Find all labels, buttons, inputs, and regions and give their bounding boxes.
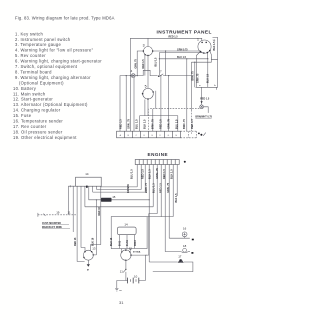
svg-text:BLK 1.5: BLK 1.5 xyxy=(148,169,152,179)
svg-text:BLU 1.5: BLU 1.5 xyxy=(177,56,187,59)
svg-text:1.5: 1.5 xyxy=(213,40,216,42)
dashed wire to other equipment 19 xyxy=(38,210,76,216)
svg-text:10. Battery: 10. Battery xyxy=(13,86,37,91)
wire: key left down xyxy=(196,52,199,87)
svg-text:BRN .75: BRN .75 xyxy=(192,71,195,81)
wire: key branch to lamp row xyxy=(159,53,203,76)
ground battery xyxy=(115,288,121,292)
svg-text:4. Warning light for "low oil: 4. Warning light for "low oil pressure" xyxy=(15,48,94,53)
svg-text:BLU 1.5: BLU 1.5 xyxy=(175,119,179,129)
svg-text:11: 11 xyxy=(120,269,123,273)
svg-text:H: H xyxy=(176,135,178,137)
svg-text:D+61: D+61 xyxy=(126,240,129,246)
legend xyxy=(13,31,102,140)
terminal board 8 (engine) xyxy=(135,160,186,165)
svg-text:17. Rev counter: 17. Rev counter xyxy=(13,124,47,129)
svg-text:3. Temperature gauge: 3. Temperature gauge xyxy=(15,42,61,47)
svg-text:17: 17 xyxy=(178,255,182,259)
temperature gauge 3 xyxy=(143,43,154,56)
svg-text:13. Alternator (Optional Equip: 13. Alternator (Optional Equipment) xyxy=(13,102,88,107)
svg-text:G: G xyxy=(168,135,170,137)
wire: gauge3 left drop xyxy=(137,51,143,76)
dynastart enclosure xyxy=(111,217,147,249)
svg-text:BRN/WHT 0.75: BRN/WHT 0.75 xyxy=(195,116,212,119)
alternator ground xyxy=(87,260,89,264)
svg-text:a: a xyxy=(199,85,201,87)
wire: branch to dashed cells xyxy=(191,57,211,62)
loop wire xyxy=(153,262,193,272)
svg-text:4: 4 xyxy=(131,69,133,73)
svg-text:M: M xyxy=(87,269,89,271)
regulator on generator (small box) xyxy=(117,223,136,235)
svg-text:m: m xyxy=(120,290,122,292)
alternator right wire xyxy=(93,200,96,255)
rev counter case edge xyxy=(155,91,157,109)
wire: box left to 19 drop xyxy=(69,186,76,215)
alternator 13 xyxy=(83,247,96,261)
wire: battery to ground xyxy=(117,281,128,289)
svg-text:b: b xyxy=(214,85,216,87)
wire labels below engine board row2 xyxy=(126,182,170,193)
wire: key right down xyxy=(210,51,218,87)
wire: gauge3 bottom drop to rev counter xyxy=(147,56,149,89)
bus wire c6 to start-generator right xyxy=(131,214,157,256)
wire: key top right vertical xyxy=(213,37,218,59)
oil pressure sender 18 xyxy=(165,244,193,254)
svg-text:15: 15 xyxy=(112,195,116,199)
svg-text:BRN .75: BRN .75 xyxy=(144,182,148,193)
svg-text:18. Oil pressure sender: 18. Oil pressure sender xyxy=(13,129,63,134)
svg-text:BRN .75: BRN .75 xyxy=(151,119,155,129)
svg-text:DF16: DF16 xyxy=(134,239,137,246)
svg-text:GRN 0.75: GRN 0.75 xyxy=(177,49,188,52)
svg-text:C: C xyxy=(136,135,138,137)
svg-text:GRN .75: GRN .75 xyxy=(135,59,138,69)
svg-text:RED 1.5: RED 1.5 xyxy=(169,36,179,39)
svg-text:19. Other electrical equipment: 19. Other electrical equipment xyxy=(13,135,77,140)
svg-text:10: 10 xyxy=(134,275,138,279)
wire: rev counter bottom xyxy=(147,99,149,116)
verticals to alternator xyxy=(77,188,85,262)
svg-text:E: E xyxy=(152,135,154,137)
svg-text:RED 1.5: RED 1.5 xyxy=(159,119,163,129)
svg-text:GRN .75: GRN .75 xyxy=(197,73,200,83)
svg-text:RED 1.5: RED 1.5 xyxy=(159,183,163,193)
svg-text:GRN+.75: GRN+.75 xyxy=(155,168,159,179)
svg-text:ENGINE: ENGINE xyxy=(148,152,169,157)
svg-text:13: 13 xyxy=(92,247,96,251)
svg-text:(Optional Equipment): (Optional Equipment) xyxy=(19,80,64,85)
small box bottom wires xyxy=(120,235,135,249)
wire: battery right up xyxy=(139,255,147,280)
svg-text:GRN .75: GRN .75 xyxy=(167,119,171,129)
wire: lamp9 right xyxy=(204,107,209,113)
dashed optional drop to board xyxy=(147,109,149,132)
svg-text:RED 16: RED 16 xyxy=(74,237,77,246)
svg-text:12: 12 xyxy=(129,246,133,250)
node dot right of board xyxy=(198,133,200,135)
svg-text:GRN .75: GRN .75 xyxy=(127,119,131,129)
svg-text:5. Rev counter: 5. Rev counter xyxy=(15,53,46,58)
switch 7 xyxy=(158,69,191,77)
svg-text:1. Key switch: 1. Key switch xyxy=(15,31,43,36)
svg-text:14: 14 xyxy=(85,172,89,176)
svg-text:8. Terminal board: 8. Terminal board xyxy=(15,70,52,75)
bus wires box to board xyxy=(101,187,137,188)
svg-text:6V 85A: 6V 85A xyxy=(133,250,141,253)
main switch 11 xyxy=(120,269,127,274)
svg-text:RED 1.5: RED 1.5 xyxy=(140,169,144,179)
svg-text:INSTRUMENT PANEL: INSTRUMENT PANEL xyxy=(157,30,212,36)
svg-text:BLU 1.5: BLU 1.5 xyxy=(134,119,138,129)
rev counter 5 xyxy=(142,85,154,100)
svg-text:BLU 16: BLU 16 xyxy=(110,237,113,246)
wire: key to mid (blue) xyxy=(159,53,207,59)
connector row xyxy=(196,86,218,88)
svg-text:7: 7 xyxy=(160,69,162,73)
warning light 4 xyxy=(120,69,158,77)
svg-text:5: 5 xyxy=(145,85,147,89)
svg-text:3: 3 xyxy=(143,43,145,47)
svg-text:RED 16: RED 16 xyxy=(98,206,101,215)
svg-text:BLK 1.5: BLK 1.5 xyxy=(142,119,146,129)
svg-text:14. Charging regulator: 14. Charging regulator xyxy=(13,108,61,113)
svg-text:B 61: B 61 xyxy=(118,240,121,246)
dashed vertical xyxy=(191,110,193,134)
rev counter sender 17 xyxy=(149,255,193,272)
key switch 1 xyxy=(197,37,216,53)
svg-text:BLU 1.5: BLU 1.5 xyxy=(129,169,133,179)
svg-text:7. Switch, optional equipment: 7. Switch, optional equipment xyxy=(15,64,78,69)
warning light 9 xyxy=(200,105,204,109)
svg-text:RED 1.5: RED 1.5 xyxy=(200,97,210,100)
wire: start-generator to main switch xyxy=(125,260,127,280)
svg-text:A: A xyxy=(120,134,122,137)
wire stubs from engine board xyxy=(137,165,177,263)
svg-text:11: 11 xyxy=(68,210,71,214)
charging regulator 14 (large box) xyxy=(73,172,101,232)
svg-text:14: 14 xyxy=(124,223,128,227)
svg-text:1: 1 xyxy=(197,37,199,41)
svg-text:12. Start-generator: 12. Start-generator xyxy=(13,97,53,102)
svg-text:RED 1.5: RED 1.5 xyxy=(142,59,145,69)
terminal board 8 (panel) xyxy=(117,131,206,138)
svg-text:BLK 1.5: BLK 1.5 xyxy=(175,193,178,203)
svg-text:RED 1.5: RED 1.5 xyxy=(162,169,166,179)
dashed optional wire to lamp 9 xyxy=(150,108,200,110)
svg-text:31: 31 xyxy=(119,300,124,305)
bus wire c5 xyxy=(85,188,153,207)
wire: gauge3 to key (green) xyxy=(153,50,201,52)
fuse 15 wire xyxy=(89,188,149,200)
svg-text:18: 18 xyxy=(183,244,187,248)
wires into start-generator top xyxy=(122,249,131,251)
wire: small drop xyxy=(144,55,146,75)
svg-text:B: B xyxy=(128,135,130,137)
temperature sender 16 xyxy=(169,226,194,240)
wire labels below engine board row1 xyxy=(129,168,173,179)
svg-text:RED 1.5: RED 1.5 xyxy=(190,119,194,129)
svg-text:Fig. 83. Wiring diagram for la: Fig. 83. Wiring diagram for late prod. T… xyxy=(15,16,115,21)
svg-text:D: D xyxy=(144,135,146,137)
svg-text:9. Warning light, charging alt: 9. Warning light, charging alternator xyxy=(15,75,91,80)
svg-text:BLK 16: BLK 16 xyxy=(92,237,95,246)
start-generator 12 xyxy=(121,246,141,261)
svg-text:BLK 1.5: BLK 1.5 xyxy=(213,41,216,51)
svg-text:11. Main switch: 11. Main switch xyxy=(13,91,46,96)
svg-text:15. Fuse: 15. Fuse xyxy=(13,113,32,118)
panel switch drop 2 xyxy=(165,51,167,76)
svg-text:BRN .75: BRN .75 xyxy=(182,119,186,129)
svg-text:6. Warning light, charging sta: 6. Warning light, charging start-generat… xyxy=(15,59,102,64)
svg-text:RED 1.5: RED 1.5 xyxy=(119,119,123,129)
svg-text:F: F xyxy=(160,135,162,137)
svg-text:BLU 1.5: BLU 1.5 xyxy=(154,57,157,67)
wire labels above panel board xyxy=(119,119,194,129)
svg-text:BRN/W: BRN/W xyxy=(126,184,130,193)
arrow on wire xyxy=(201,101,203,103)
note text two lines underlined xyxy=(42,223,70,229)
wire: top feed red xyxy=(130,38,201,131)
verticals into panel terminal board xyxy=(119,76,121,132)
wire: down to lamp 9 xyxy=(201,90,203,105)
svg-text:16: 16 xyxy=(183,226,187,230)
svg-text:BLU 1.5: BLU 1.5 xyxy=(207,73,210,83)
svg-text:16. Temperature sender: 16. Temperature sender xyxy=(13,119,63,124)
svg-text:GRN .75: GRN .75 xyxy=(166,182,170,193)
svg-text:BLK 1.5: BLK 1.5 xyxy=(170,169,174,179)
svg-text:2. Instrument panel switch: 2. Instrument panel switch xyxy=(15,37,71,42)
battery 10 xyxy=(128,275,139,284)
svg-text:19: 19 xyxy=(56,210,60,214)
svg-text:BLU 1.5: BLU 1.5 xyxy=(151,183,155,193)
wire: key mid vertical xyxy=(207,59,209,88)
